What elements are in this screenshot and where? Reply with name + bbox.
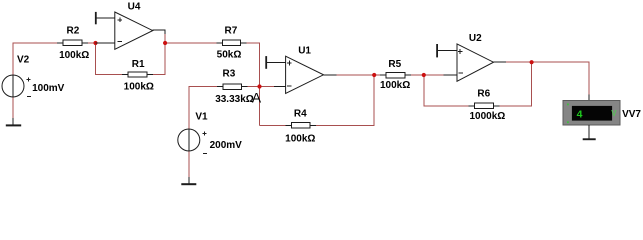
svg-text:R7: R7: [225, 26, 238, 37]
resistor R6 1000kΩ: [468, 89, 505, 122]
resistor R1 100kΩ: [122, 59, 154, 92]
svg-text:100kΩ: 100kΩ: [285, 133, 315, 144]
resistor R5 100kΩ: [380, 59, 411, 91]
wire node N1 down to R1 left (feedback): [96, 43, 123, 75]
op-amp U2: [438, 33, 506, 82]
wire V2 bottom to ground: [12, 97, 14, 118]
svg-text:VV7: VV7: [622, 109, 641, 120]
op-amp U4: [96, 2, 166, 50]
wire node N6 to voltmeter VV7 top: [532, 62, 589, 95]
svg-text:R1: R1: [132, 59, 145, 70]
wire R2 right to node N1: [88, 42, 96, 44]
wire V1 bottom to ground: [188, 151, 190, 177]
wire R5 right to node N5: [411, 74, 424, 76]
svg-text:100kΩ: 100kΩ: [124, 82, 154, 93]
wire V1 top to R3 left: [189, 87, 217, 130]
svg-text:U4: U4: [128, 2, 141, 13]
ground below V2: [6, 118, 21, 126]
ground at U2 non-inverting input: [436, 44, 438, 57]
wire U1 output to node N4: [336, 74, 374, 76]
svg-text:100kΩ: 100kΩ: [380, 80, 410, 91]
junction node N4: [372, 73, 376, 77]
resistor R2 100kΩ: [57, 26, 89, 62]
voltmeter VV7: [563, 95, 641, 125]
wire R6 right up to node N6: [499, 62, 531, 106]
junction node N1: [93, 41, 97, 45]
op-amp U1: [267, 46, 337, 94]
wire U4 output corner down to node N2: [164, 33, 166, 43]
wire R7 right down to R4 row (node A vertical): [247, 43, 260, 125]
svg-text:R2: R2: [67, 26, 80, 37]
wire node N4 to R5 left: [374, 74, 380, 76]
svg-text:50kΩ: 50kΩ: [217, 50, 242, 61]
wire node N5 down to R6 left (feedback): [424, 75, 469, 106]
wire node A to U1 inverting input: [260, 86, 275, 88]
junction node N6: [530, 60, 534, 64]
ground at U4 non-inverting input: [95, 12, 97, 24]
svg-text:4: 4: [577, 109, 583, 121]
junction node A: [257, 84, 261, 88]
svg-text:1000kΩ: 1000kΩ: [469, 111, 505, 122]
wire node A vertical bottom to R4 left: [260, 124, 286, 126]
ground below voltmeter VV7: [583, 125, 596, 140]
ground below V1: [181, 177, 196, 185]
svg-text:R6: R6: [477, 89, 490, 100]
svg-text:33.33kΩ: 33.33kΩ: [215, 94, 254, 105]
svg-text:U1: U1: [298, 46, 311, 57]
svg-text:U2: U2: [469, 33, 482, 44]
resistor R4 100kΩ: [285, 109, 316, 145]
wire U2 output to node N6: [506, 61, 532, 63]
svg-text:R5: R5: [388, 59, 401, 70]
junction node N2: [163, 41, 167, 45]
ground at U1 non-inverting input: [265, 56, 267, 69]
voltage source V2 100mV: [2, 55, 65, 97]
svg-text:200mV: 200mV: [210, 140, 243, 151]
svg-text:100mV: 100mV: [32, 83, 65, 94]
svg-text:R4: R4: [294, 109, 307, 120]
wire R4 right up to node N4: [316, 75, 374, 125]
voltage source V1 200mV: [178, 111, 242, 153]
svg-text:100kΩ: 100kΩ: [59, 50, 89, 61]
wire R1 right up to node N2: [153, 43, 165, 75]
wire node N5 to U2 inverting input: [424, 74, 444, 76]
resistor R7 50kΩ: [216, 26, 246, 61]
wire node N2 to R7 left: [165, 42, 216, 44]
junction node N5: [422, 73, 426, 77]
svg-text:V: V: [611, 109, 617, 118]
svg-text:R3: R3: [223, 69, 236, 80]
wire R3 right to node A: [248, 86, 260, 88]
resistor R3 33.33kΩ: [215, 69, 254, 105]
svg-text:V2: V2: [17, 55, 30, 66]
svg-text:V1: V1: [195, 111, 208, 122]
svg-text:A: A: [252, 89, 262, 105]
wire V2 top to R2 left: [13, 43, 57, 75]
